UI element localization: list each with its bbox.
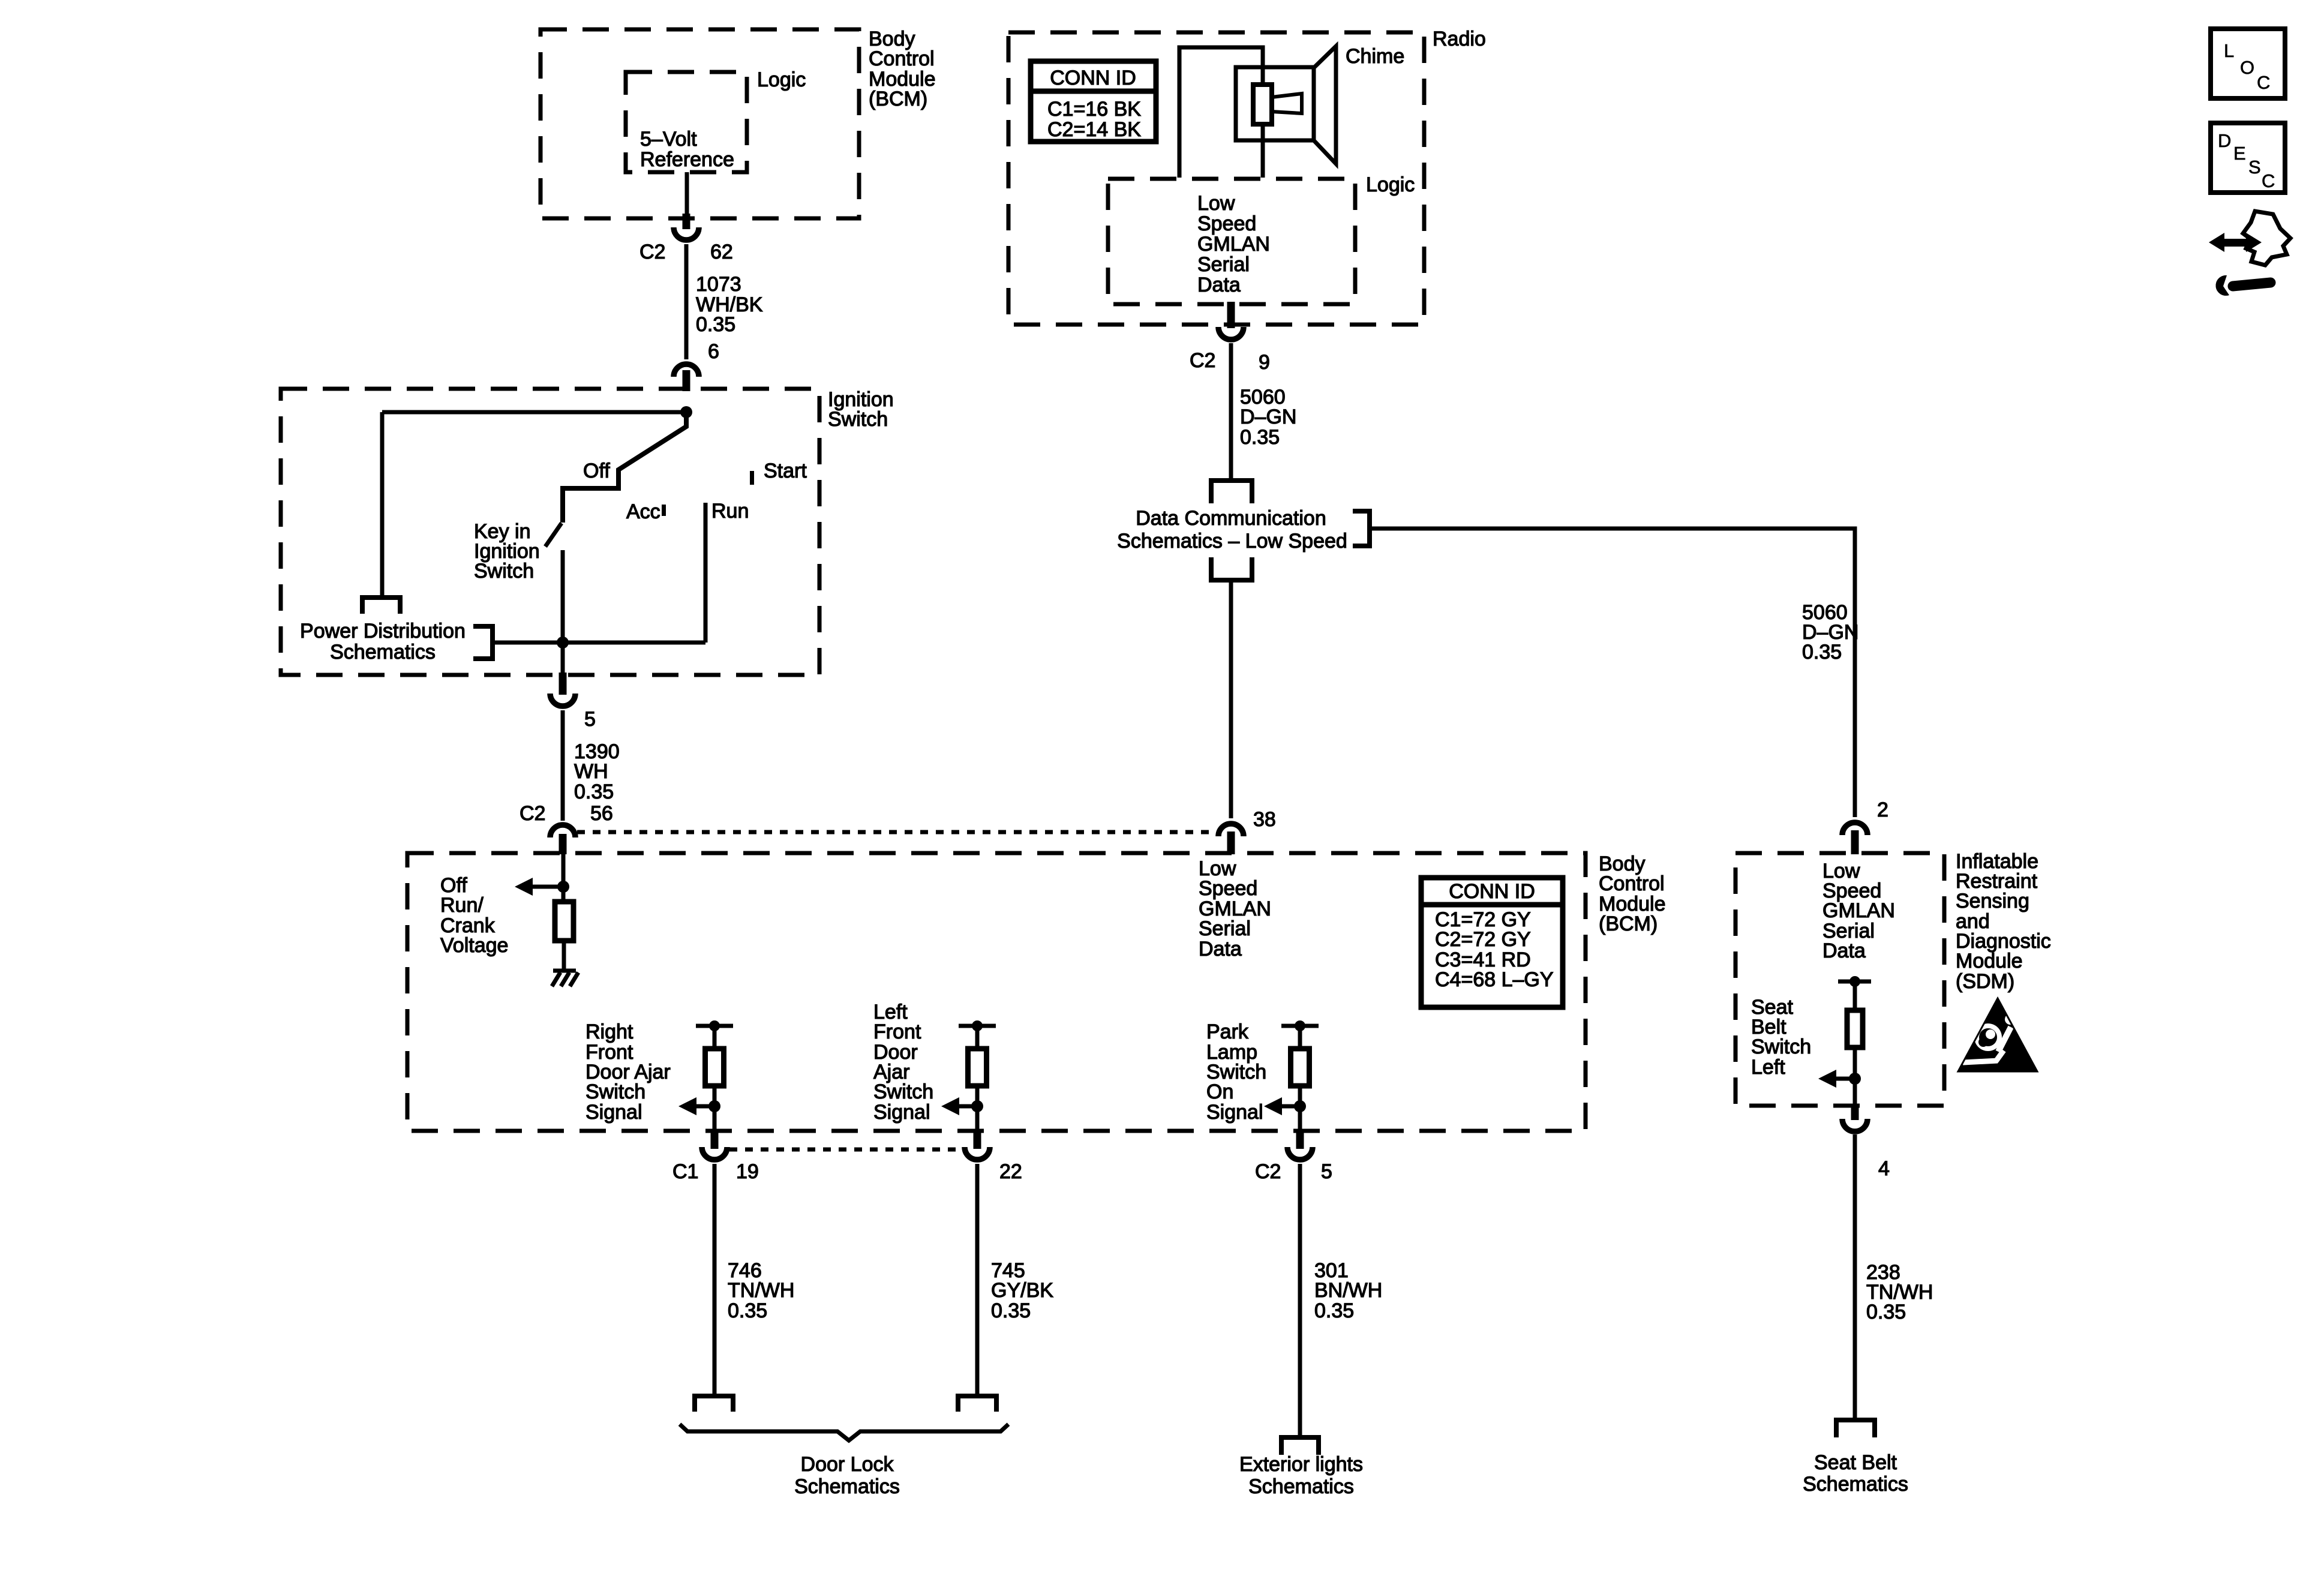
data communication off-page connector bottom (1211, 557, 1252, 580)
connector C2 pin 62 (BCM side) (683, 214, 690, 229)
svg-text:Power Distribution: Power Distribution (300, 620, 466, 643)
brace to Door Lock Schematics (680, 1424, 1008, 1440)
door lock harness connector (745) (958, 1396, 996, 1412)
connector pin 2 (SDM side) (1842, 822, 1867, 835)
svg-text:Run: Run (711, 500, 749, 523)
svg-text:Switch: Switch (585, 1080, 645, 1103)
svg-text:0.35: 0.35 (574, 781, 614, 803)
resistor (Off Run/Crank Voltage) (555, 902, 574, 941)
double-arrow and wrench icon (2209, 233, 2224, 252)
resistor (seat belt switch) (1847, 1010, 1863, 1047)
svg-text:GMLAN: GMLAN (1822, 899, 1895, 922)
SDM internal node bar (1838, 980, 1871, 984)
Start contact tick (750, 471, 754, 485)
Inflatable Restraint SDM dashed box (1736, 853, 1944, 1106)
bus wire from power distribution bracket to Run (493, 641, 705, 645)
svg-text:0.35: 0.35 (696, 313, 735, 336)
svg-text:C4=68 L–GY: C4=68 L–GY (1435, 968, 1554, 991)
power distribution bracket (473, 626, 493, 659)
svg-text:Data: Data (1822, 939, 1866, 962)
chime element (1253, 85, 1272, 124)
wire 1073 WH/BK 0.35 (684, 244, 689, 359)
Run contact line (704, 503, 708, 643)
svg-text:C1=16 BK: C1=16 BK (1047, 98, 1141, 121)
svg-text:5: 5 (1321, 1160, 1332, 1183)
svg-text:0.35: 0.35 (991, 1299, 1031, 1322)
connector pin 4 (seat belt harness) (1851, 1104, 1859, 1120)
svg-text:Switch: Switch (1751, 1035, 1811, 1058)
connector C2 pin 9 (radio side) (1227, 302, 1235, 328)
chime inner horn (1272, 94, 1302, 113)
chime speaker body (1236, 67, 1314, 140)
ground (553, 969, 576, 973)
svg-text:E: E (2233, 143, 2246, 164)
wire 301 BN/WH 0.35 (1298, 1164, 1302, 1437)
power distribution off-page connector symbol (362, 598, 400, 614)
svg-text:Seat Belt: Seat Belt (1814, 1451, 1897, 1474)
svg-text:Control: Control (1599, 872, 1665, 895)
svg-text:Reference: Reference (640, 148, 734, 171)
svg-text:S: S (2248, 157, 2261, 178)
dotted connector line C2 of BCM (577, 830, 1217, 834)
svg-text:5: 5 (584, 708, 596, 731)
svg-text:Acc: Acc (626, 500, 660, 523)
wire 238 TN/WH 0.35 (1853, 1134, 1857, 1420)
Off Run/Crank Voltage arrow (515, 878, 533, 896)
wire 5060 D-GN 0.35 (radio to splice) (1229, 343, 1233, 481)
svg-text:Speed: Speed (1199, 877, 1257, 900)
wire 746 TN/WH 0.35 (713, 1164, 717, 1396)
data communication off-page connector top (1211, 481, 1252, 503)
svg-text:(SDM): (SDM) (1956, 970, 2014, 993)
wire from 5-Volt Reference to connector C2 pin 62 (685, 172, 689, 215)
Acc contact tick (662, 505, 666, 516)
svg-text:Off: Off (583, 460, 610, 482)
svg-text:Data: Data (1197, 274, 1241, 296)
wire from logic box up and over to chime (1179, 47, 1263, 178)
svg-text:Serial: Serial (1197, 253, 1250, 276)
connector C2 pin 56 (BCM side) (550, 825, 575, 837)
svg-text:Schematics: Schematics (1803, 1473, 1908, 1496)
svg-text:Schematics: Schematics (330, 641, 436, 664)
svg-text:Radio: Radio (1433, 28, 1486, 50)
svg-text:Switch: Switch (474, 560, 534, 583)
svg-text:Front: Front (873, 1020, 921, 1043)
wire from data comm splice to connector 38 (1229, 579, 1233, 818)
switch pole wire (561, 550, 565, 643)
Radio dashed box (1008, 32, 1424, 325)
CONN ID table (BCM) (1421, 878, 1563, 1007)
svg-text:WH: WH (574, 760, 608, 783)
svg-text:Logic: Logic (757, 68, 806, 91)
svg-text:4: 4 (1878, 1157, 1890, 1180)
svg-text:9: 9 (1259, 351, 1270, 374)
svg-text:Switch: Switch (873, 1080, 933, 1103)
svg-text:C2: C2 (1190, 349, 1215, 372)
svg-text:56: 56 (590, 802, 613, 825)
data communication bracket right (1353, 511, 1370, 546)
svg-text:Control: Control (869, 47, 935, 70)
svg-text:Start: Start (764, 460, 807, 482)
Body Control Module (BCM) top dashed box (541, 29, 859, 218)
wire from data comm bracket to SDM branch (1370, 529, 1855, 817)
svg-text:Speed: Speed (1197, 212, 1256, 235)
svg-text:CONN ID: CONN ID (1449, 880, 1535, 903)
svg-text:TN/WH: TN/WH (728, 1279, 794, 1302)
svg-text:Run/: Run/ (440, 894, 484, 917)
Seat Belt Switch Left arrow (1818, 1070, 1836, 1088)
svg-text:C: C (2262, 170, 2275, 191)
wire down to power distribution connector (380, 412, 385, 598)
svg-text:22: 22 (999, 1160, 1022, 1183)
svg-text:38: 38 (1253, 808, 1276, 831)
svg-text:0.35: 0.35 (1240, 426, 1280, 449)
svg-text:Exterior lights: Exterior lights (1239, 1453, 1363, 1476)
svg-text:Signal: Signal (873, 1101, 930, 1124)
svg-text:5–Volt: 5–Volt (640, 128, 697, 151)
LOC corner icon (2211, 29, 2285, 98)
dotted connector line C1 of BCM (729, 1148, 962, 1152)
svg-text:C2: C2 (520, 802, 545, 825)
svg-text:62: 62 (710, 241, 733, 263)
svg-text:Logic: Logic (1366, 173, 1415, 196)
svg-text:Park: Park (1206, 1020, 1249, 1043)
svg-text:Schematics: Schematics (1248, 1475, 1354, 1498)
svg-text:0.35: 0.35 (1802, 641, 1842, 664)
svg-text:Signal: Signal (585, 1101, 642, 1124)
wire to ground (562, 941, 566, 971)
svg-text:Sensing: Sensing (1956, 890, 2029, 912)
svg-text:Low: Low (1197, 192, 1235, 215)
svg-text:Module: Module (1956, 950, 2023, 972)
svg-text:Data Communication: Data Communication (1136, 507, 1326, 530)
svg-text:Data: Data (1199, 938, 1242, 960)
svg-text:Right: Right (585, 1020, 633, 1043)
connector pin 38 (BCM side) (1218, 824, 1244, 836)
svg-text:GMLAN: GMLAN (1197, 233, 1270, 256)
junction on bus (557, 637, 569, 649)
svg-text:D–GN: D–GN (1240, 406, 1296, 428)
svg-text:0.35: 0.35 (728, 1299, 767, 1322)
ignition switch wiper: Off position (563, 412, 686, 523)
svg-text:Door Lock: Door Lock (801, 1453, 894, 1476)
connector pin 22 (BCM side) (974, 1130, 981, 1149)
Body Control Module (BCM) bottom dashed box (407, 853, 1586, 1131)
wire into BCM from C2/56 (562, 854, 566, 902)
wire 745 GY/BK 0.35 (975, 1164, 980, 1396)
wire junction below connector 6 (680, 406, 692, 418)
SRS warning triangle (1958, 998, 2037, 1071)
connector C1 pin 19 (BCM side) (711, 1130, 719, 1149)
connector C2 pin 5 (BCM side) (1296, 1130, 1304, 1149)
wire from chime down to logic box (1261, 124, 1265, 178)
svg-text:(BCM): (BCM) (869, 88, 927, 110)
svg-text:Signal: Signal (1206, 1101, 1263, 1124)
wire from bus down to connector 5 (561, 643, 565, 674)
svg-text:Serial: Serial (1199, 917, 1251, 940)
svg-text:C1: C1 (672, 1160, 698, 1183)
svg-text:0.35: 0.35 (1314, 1299, 1354, 1322)
DESC corner icon (2211, 123, 2285, 193)
svg-text:Chime: Chime (1346, 45, 1404, 68)
wire horizontal to power distribution branch (382, 410, 686, 415)
seat belt harness connector (1836, 1420, 1875, 1437)
svg-text:CONN ID: CONN ID (1050, 67, 1136, 89)
svg-text:2: 2 (1877, 798, 1888, 821)
svg-text:19: 19 (736, 1160, 759, 1183)
Ignition Switch dashed box (281, 389, 819, 675)
svg-text:(BCM): (BCM) (1599, 912, 1658, 935)
exterior lights harness connector (301) (1281, 1437, 1319, 1455)
door lock harness connector (746) (695, 1396, 733, 1412)
svg-text:Switch: Switch (828, 408, 888, 431)
svg-text:0.35: 0.35 (1866, 1301, 1906, 1323)
connector pin 6 (ignition switch side) (674, 364, 699, 377)
svg-text:BN/WH: BN/WH (1314, 1279, 1382, 1302)
BCM Logic inner dashed box : 5-Volt Reference (626, 72, 747, 172)
svg-text:O: O (2240, 57, 2254, 78)
svg-text:Left: Left (1751, 1056, 1785, 1079)
svg-text:On: On (1206, 1080, 1233, 1103)
svg-text:C2=72 GY: C2=72 GY (1435, 928, 1531, 951)
svg-text:Voltage: Voltage (440, 934, 508, 957)
CONN ID table (Radio) (1031, 61, 1156, 142)
svg-text:L: L (2224, 40, 2234, 61)
svg-text:GY/BK: GY/BK (991, 1279, 1053, 1302)
Radio Logic dashed box (1108, 179, 1355, 304)
chime speaker horn (1314, 46, 1336, 164)
svg-text:Schematics: Schematics (794, 1475, 900, 1498)
wire 1390 WH 0.35 (561, 710, 565, 821)
svg-text:C2: C2 (639, 241, 665, 263)
connector pin 5 (ignition switch side) (559, 673, 567, 695)
svg-text:D: D (2218, 130, 2231, 151)
svg-text:6: 6 (708, 340, 719, 363)
key-in-ignition switch blade (545, 523, 562, 547)
svg-text:1073: 1073 (696, 273, 741, 296)
svg-text:Schematics – Low Speed: Schematics – Low Speed (1117, 530, 1347, 553)
svg-text:C2: C2 (1255, 1160, 1281, 1183)
svg-text:C: C (2257, 72, 2270, 93)
svg-text:C2=14 BK: C2=14 BK (1047, 118, 1141, 141)
